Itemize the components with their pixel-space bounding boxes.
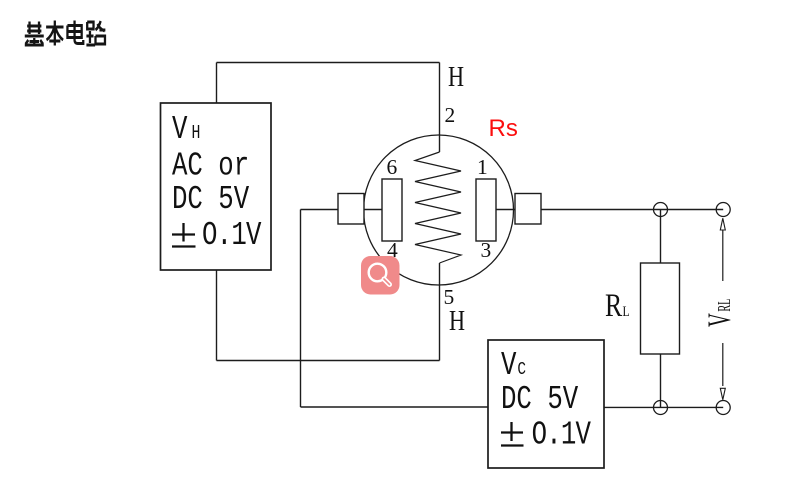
- node H bottom label: [449, 304, 465, 336]
- label VC text lines: [501, 346, 591, 453]
- svg-text:V: V: [701, 313, 738, 327]
- electrode left (pins 6-4 plate): [382, 179, 402, 241]
- wire: VH bottom lead (vertical from VH box down): [216, 270, 218, 361]
- voltage source VH box: [161, 103, 272, 270]
- resistor RL body: [641, 263, 680, 354]
- wire: Vc rail right segment (Vc box to output terminals): [604, 406, 723, 408]
- terminal circle top-right node: [716, 203, 730, 217]
- label VH plus-minus sign: [172, 223, 196, 247]
- VRL measure line lower: [722, 343, 724, 386]
- svg-text:H: H: [449, 304, 465, 336]
- sensor U1 envelope circle: [364, 135, 514, 285]
- label VC plus-minus sign: [501, 422, 524, 446]
- magnifier zoom icon overlay: [361, 256, 400, 295]
- svg-text:O.1V: O.1V: [202, 216, 262, 254]
- pin lead right (stub rectangle): [515, 194, 541, 225]
- voltage source VC box: [488, 340, 604, 468]
- wire: top rail H (horizontal to sensor pin 2): [217, 62, 440, 64]
- wire: electrode link right: [496, 209, 515, 211]
- label VH text lines: [172, 110, 262, 254]
- svg-text:3: 3: [481, 238, 492, 262]
- title 基本电路 (drawn strokes): [25, 21, 106, 46]
- label RL: [605, 288, 630, 324]
- wire: sensor pin 1/3 lead to output rail: [541, 209, 723, 211]
- svg-text:R: R: [605, 288, 622, 324]
- VRL measure line upper: [722, 230, 724, 281]
- svg-text:RL: RL: [715, 299, 735, 312]
- svg-text:V: V: [501, 346, 517, 384]
- label VRL (rotated): [701, 299, 738, 327]
- svg-text:Rs: Rs: [489, 115, 518, 142]
- terminal circle bottom-left node: [654, 401, 668, 415]
- wire: RL top branch vertical: [660, 210, 662, 264]
- svg-text:V: V: [172, 110, 188, 148]
- wire: sensor pin4 lead going left: [301, 209, 339, 211]
- svg-text:DC 5V: DC 5V: [172, 180, 249, 218]
- pin lead left (stub rectangle): [338, 194, 364, 225]
- VRL measure arrow down: [720, 388, 725, 400]
- terminal circle top-left node: [654, 203, 668, 217]
- svg-text:C: C: [517, 358, 526, 379]
- svg-text:AC or: AC or: [172, 147, 249, 185]
- wire: RL bottom branch vertical: [660, 354, 662, 408]
- wire: sensor pin2 drop (vertical into sensor): [439, 63, 441, 153]
- svg-text:1: 1: [477, 155, 488, 179]
- VRL measure arrow up: [720, 218, 725, 230]
- electrode right (pins 1-3 plate): [476, 179, 496, 241]
- svg-text:H: H: [192, 124, 201, 145]
- svg-text:DC 5V: DC 5V: [501, 380, 578, 418]
- wire: electrode link left: [364, 209, 382, 211]
- svg-text:2: 2: [445, 103, 456, 127]
- terminal circle bottom-right node: [716, 401, 730, 415]
- wire: left branch vertical down to Vc rail: [300, 210, 302, 408]
- svg-text:L: L: [623, 303, 630, 320]
- wire: bottom heater rail (horizontal to sensor pin 5): [217, 360, 440, 362]
- wire: VH top lead (vertical from VH box top up to top rail): [216, 63, 218, 104]
- sensor resistor Rs zigzag: [415, 152, 461, 263]
- wire: sensor pin5 drop (vertical from sensor bottom): [439, 263, 441, 361]
- node H top label: [448, 60, 464, 92]
- svg-text:H: H: [448, 60, 464, 92]
- wire: Vc rail left segment (to Vc box): [301, 406, 489, 408]
- svg-text:O.1V: O.1V: [532, 416, 592, 454]
- svg-text:6: 6: [387, 155, 398, 179]
